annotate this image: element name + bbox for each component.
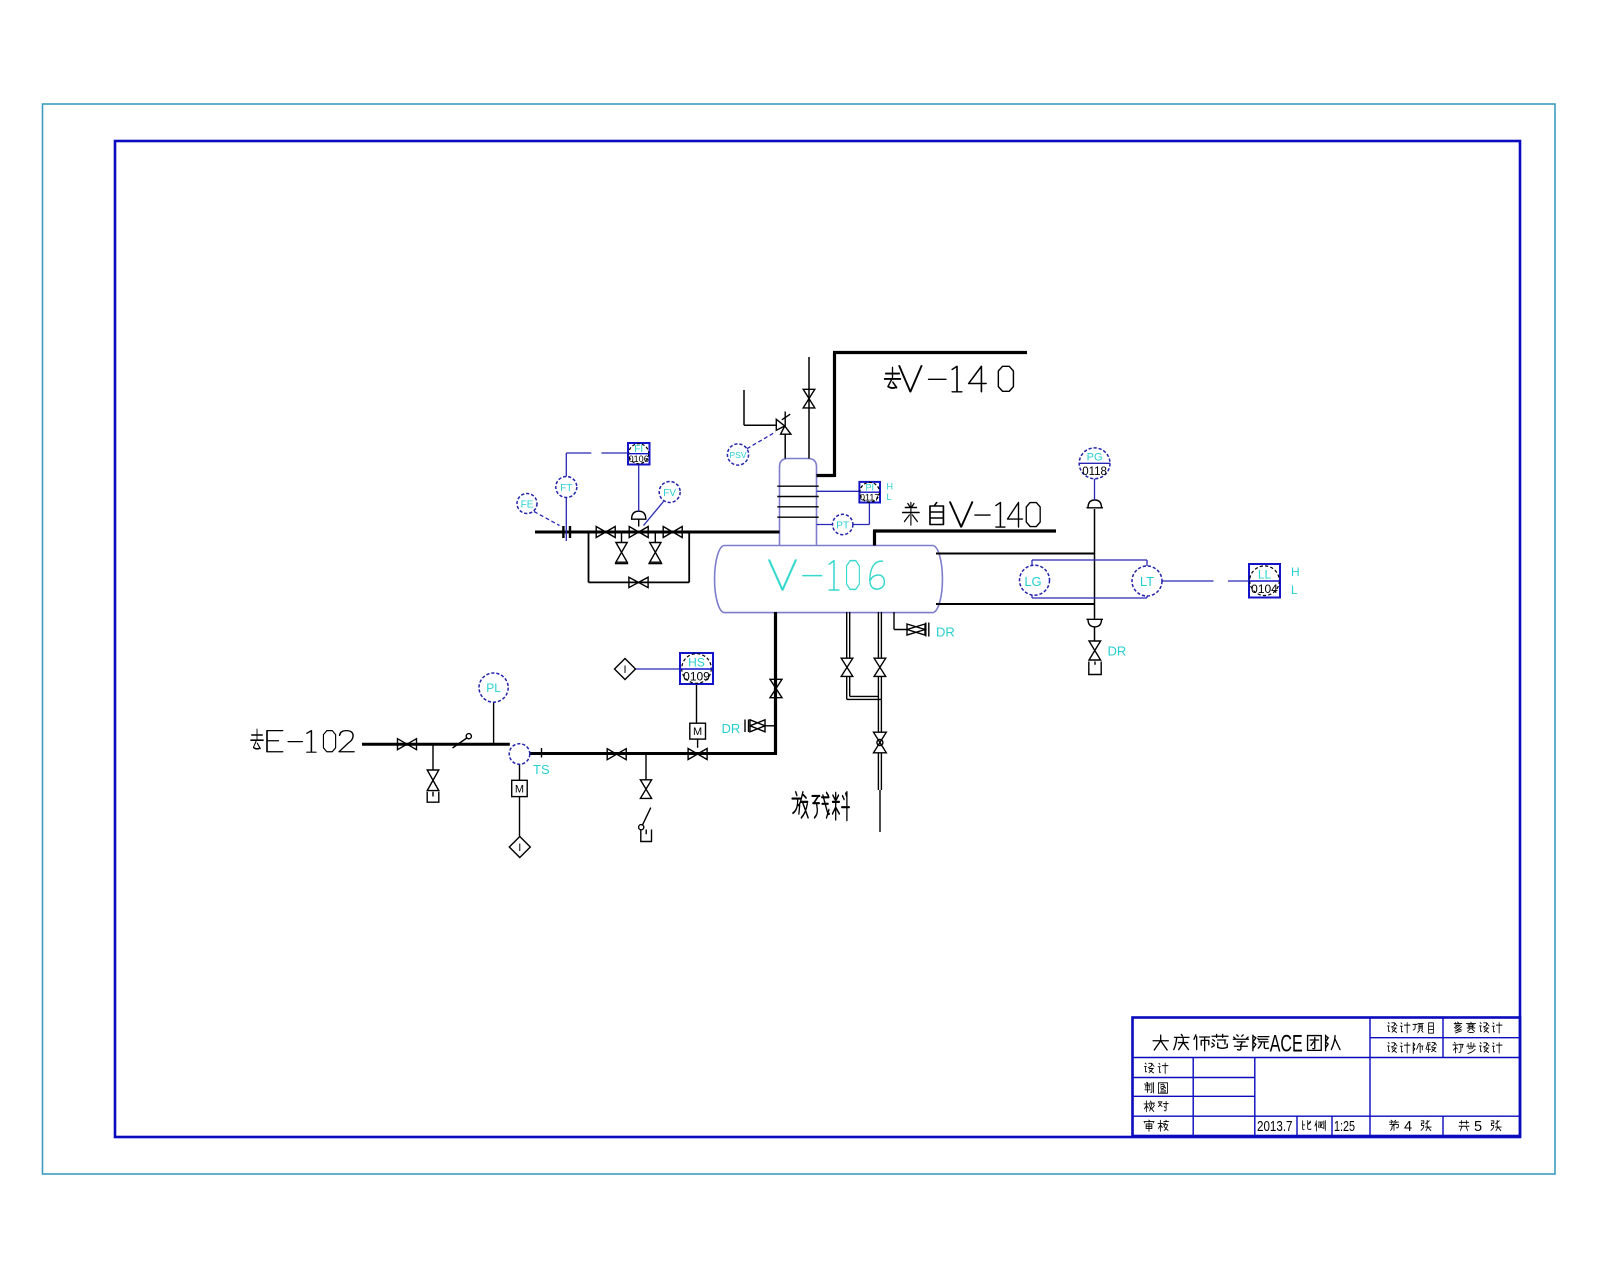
- svg-text:FT: FT: [560, 483, 572, 494]
- pipe to V-140 (top): [817, 353, 1028, 478]
- svg-text:DR: DR: [1108, 644, 1127, 659]
- DR valve right of vessel (blind): [907, 623, 929, 637]
- cyan line labels: [533, 625, 1126, 778]
- svg-text:M: M: [693, 726, 702, 738]
- FT to FI signal: [566, 453, 628, 477]
- gate valve feed right: [663, 527, 682, 538]
- instrument bubbles: [479, 444, 1162, 764]
- svg-text:L: L: [1291, 583, 1298, 597]
- instrument TS element: [509, 744, 530, 765]
- drain funnel standpipe: [1089, 662, 1101, 675]
- cock below TS tee valve: [642, 808, 651, 826]
- svg-text:FV: FV: [663, 488, 676, 499]
- M actuator letters: [515, 664, 702, 854]
- vessel right level nozzles: [936, 554, 1095, 605]
- bottom product pipe to E-102: [362, 743, 510, 746]
- PSV inlet stem: [784, 434, 786, 458]
- svg-text:DR: DR: [722, 721, 741, 736]
- TS M-I connecting lines: [519, 764, 521, 836]
- instrument PT: [833, 514, 853, 534]
- H/L alarm labels: [887, 482, 1300, 598]
- FE leader: [534, 512, 560, 526]
- level standpipe: [1094, 509, 1096, 641]
- I to HS signal: [636, 668, 681, 670]
- instrument PI box: [859, 482, 880, 503]
- DR valve on outlet (blind): [750, 720, 765, 732]
- PSV leader: [747, 432, 776, 449]
- PG tap line: [1094, 479, 1096, 500]
- FV leader: [644, 502, 664, 526]
- svg-text:PSV: PSV: [729, 450, 746, 460]
- tee drain valve on TS line: [640, 780, 651, 799]
- svg-text:LL: LL: [1258, 568, 1272, 582]
- svg-text:0104: 0104: [1251, 582, 1278, 596]
- svg-text:2013.7: 2013.7: [1257, 1119, 1293, 1135]
- vent valve on dome pipe: [803, 389, 815, 408]
- hand switch M box (HS): [690, 723, 706, 739]
- FV actuator diaphragm: [632, 511, 646, 526]
- svg-text:TS: TS: [533, 762, 550, 777]
- drain valve B below vessel: [874, 658, 886, 676]
- instrument PL: [479, 673, 508, 702]
- valve on E-102 line: [398, 739, 417, 750]
- bypass valve: [629, 577, 648, 587]
- E-102 line drain tee: [432, 745, 434, 770]
- drain stubs under feed pipe: [622, 533, 656, 543]
- label: drain residue: [792, 792, 849, 820]
- instrument signal lines: [534, 432, 1249, 669]
- instrument FT: [556, 477, 577, 498]
- svg-text:5: 5: [1474, 1119, 1482, 1135]
- tee drain valve on E-102 line: [427, 770, 439, 791]
- vessel tag V-106: [769, 560, 884, 590]
- svg-text:L: L: [887, 492, 892, 502]
- pipe from V-140 (incoming): [873, 531, 1056, 546]
- level bridle: [1032, 560, 1147, 598]
- svg-text:M: M: [515, 784, 524, 796]
- DR tee on outlet: [765, 725, 775, 727]
- PSV relief valve: [776, 412, 791, 435]
- globe valve on drain header: [874, 732, 887, 753]
- svg-text:FE: FE: [521, 500, 534, 511]
- svg-text:ACE: ACE: [1270, 1031, 1303, 1058]
- svg-text:LT: LT: [1140, 574, 1154, 589]
- dome vent pipe: [808, 357, 810, 459]
- motor control valve body: [688, 749, 707, 760]
- PL tap line: [493, 702, 495, 743]
- vessel drain line B (double): [878, 612, 881, 832]
- PI tap line: [817, 490, 860, 492]
- vessel DR tee right: [894, 612, 907, 630]
- standpipe drain valve: [1089, 641, 1101, 660]
- label: from V-140: [903, 503, 944, 526]
- diaphragm seal top of standpipe: [1087, 500, 1104, 508]
- LT to LL signal: [1162, 580, 1249, 582]
- vessel top dome nozzle: [780, 459, 817, 546]
- title block small labels: [1144, 1022, 1502, 1131]
- svg-text:0117: 0117: [860, 493, 879, 503]
- svg-text:PL: PL: [486, 681, 501, 695]
- drain valve B under feed pipe: [650, 543, 661, 563]
- bottom outlet pipe: [774, 612, 777, 754]
- thermowell tick: [541, 748, 543, 758]
- svg-text:H: H: [887, 482, 894, 492]
- demister tray lines in dome: [777, 486, 818, 517]
- TS line drain tee: [645, 754, 647, 780]
- drain valve A under feed pipe: [616, 543, 627, 563]
- instrument PSV: [727, 444, 748, 465]
- drain funnel E-102 tee: [427, 792, 439, 802]
- instrument number texts: [629, 454, 1278, 684]
- instrument LT: [1132, 566, 1162, 596]
- instrument LG: [1020, 565, 1050, 595]
- cock on E-102 line: [453, 738, 468, 749]
- FI to FV signal: [638, 465, 640, 512]
- valve right of TS: [607, 749, 626, 760]
- hand switch M box (TS): [512, 780, 528, 796]
- svg-text:0109: 0109: [683, 670, 710, 684]
- PT tap lines: [817, 503, 870, 525]
- svg-text:DR: DR: [936, 625, 955, 640]
- instrument PG: [1079, 448, 1110, 479]
- interlock I diamond (TS): [509, 837, 530, 858]
- bypass line: [589, 533, 690, 582]
- svg-text:0106: 0106: [629, 454, 649, 464]
- instrument HS box: [680, 653, 713, 684]
- PSV outlet piping: [744, 390, 777, 425]
- svg-text:4: 4: [1404, 1119, 1412, 1135]
- instrument FV: [659, 482, 680, 503]
- instrument LL box: [1249, 564, 1280, 598]
- svg-text:PI: PI: [865, 483, 874, 493]
- label: to E-102: [251, 729, 264, 749]
- gate valve feed left: [596, 527, 615, 538]
- svg-text:HS: HS: [688, 656, 705, 670]
- vessel drain line A (double): [847, 612, 882, 699]
- title text: Daqing Normal University ACE team: [1153, 1034, 1340, 1050]
- feed pipe into dome: [535, 531, 780, 534]
- drain valve A below vessel: [841, 658, 853, 676]
- svg-text:PG: PG: [1087, 452, 1103, 464]
- interlock I diamond (HS): [615, 659, 636, 680]
- instrument FI box: [628, 443, 650, 465]
- label: to V-140: [885, 368, 901, 388]
- svg-text:LG: LG: [1024, 574, 1041, 589]
- instrument FE: [517, 494, 537, 514]
- instrument letter texts: [486, 444, 1271, 695]
- control valve FV body: [629, 527, 648, 538]
- outlet valve below vessel: [770, 679, 782, 697]
- svg-text:1:25: 1:25: [1334, 1119, 1355, 1135]
- svg-text:I: I: [518, 842, 521, 854]
- svg-text:H: H: [1291, 565, 1300, 579]
- diaphragm seal bottom of standpipe: [1087, 619, 1104, 627]
- orifice flange plates: [563, 526, 570, 538]
- svg-text:0118: 0118: [1082, 466, 1107, 478]
- HS-M-valve connecting lines: [697, 684, 698, 748]
- title block: [1133, 1018, 1521, 1137]
- svg-text:PT: PT: [836, 521, 849, 532]
- drain funnel TS tee: [641, 830, 652, 842]
- svg-text:I: I: [623, 664, 626, 676]
- vessel V-106 horizontal drum: [715, 459, 943, 613]
- FT tap line: [565, 498, 567, 542]
